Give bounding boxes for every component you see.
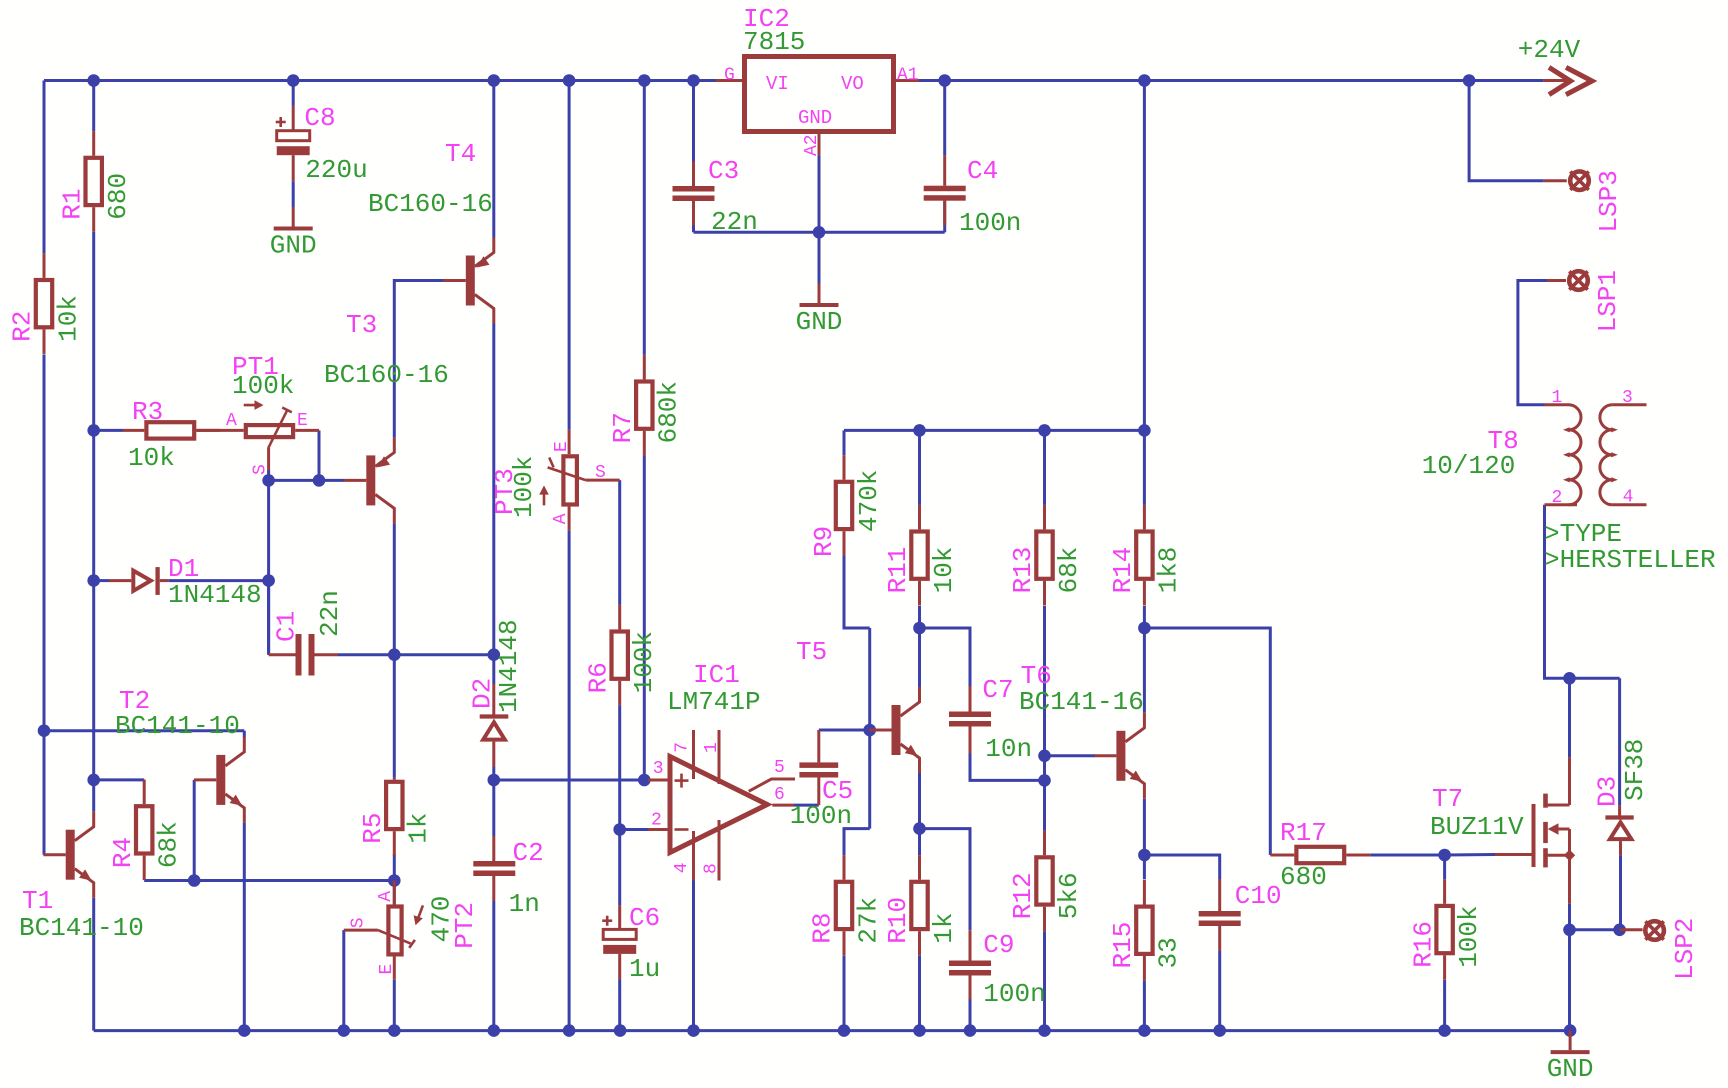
junction	[87, 74, 100, 87]
svg-text:C10: C10	[1235, 881, 1282, 911]
solder pad LSP1	[1547, 270, 1623, 332]
wire T1 emitter down	[92, 898, 95, 1031]
svg-text:R1: R1	[57, 188, 87, 219]
svg-text:100n: 100n	[790, 801, 852, 831]
wire T6-base col to R12	[1043, 756, 1046, 831]
resistor R7	[608, 355, 684, 456]
junction	[488, 648, 501, 661]
wire C1 row to T3 collector	[338, 653, 494, 656]
wire op-amp pin4 to GND rail	[692, 881, 695, 1031]
junction	[913, 1024, 926, 1037]
svg-text:2: 2	[1552, 488, 1563, 508]
svg-text:A: A	[376, 891, 396, 902]
junction	[1563, 924, 1576, 937]
junction	[964, 1024, 977, 1037]
wire R13 bottom to T6 base	[1043, 606, 1046, 756]
svg-text:100n: 100n	[959, 208, 1021, 238]
wire C3 top	[692, 81, 695, 162]
junction	[638, 774, 651, 787]
junction	[863, 724, 876, 737]
wire D2 anode to op-amp + row	[492, 767, 495, 780]
svg-text:C7: C7	[982, 675, 1013, 705]
svg-text:10k: 10k	[53, 295, 83, 342]
junction	[838, 1024, 851, 1037]
resistor R13	[1008, 505, 1084, 606]
svg-text:C1: C1	[272, 611, 302, 642]
potentiometer PT3	[490, 430, 620, 531]
resistor R12	[1008, 831, 1084, 932]
svg-text:100k: 100k	[629, 631, 659, 693]
wire C5 top to T5 base	[819, 729, 870, 732]
svg-text:R13: R13	[1008, 547, 1038, 594]
junction	[388, 874, 401, 887]
svg-text:E: E	[377, 964, 397, 975]
wire R5 top	[393, 655, 396, 778]
wire R1 bottom column	[92, 232, 95, 812]
svg-text:100k: 100k	[232, 371, 294, 401]
junction	[87, 774, 100, 787]
wire drain node down	[1568, 678, 1571, 757]
ground GND bottom	[1547, 1031, 1594, 1085]
wire C9 bottom to rail	[969, 1000, 972, 1031]
junction	[313, 474, 326, 487]
svg-text:S: S	[349, 917, 369, 928]
svg-text:7: 7	[673, 742, 693, 753]
capacitor C8	[276, 103, 368, 185]
wire T3 collector down	[393, 523, 396, 654]
wire bias bus row	[844, 429, 1144, 432]
wire T4 emitter to rail	[492, 81, 495, 238]
svg-text:3: 3	[1622, 388, 1633, 408]
wire D3 top	[1618, 678, 1621, 805]
wire C3-C4 GND row	[694, 231, 945, 234]
svg-text:BC160-16: BC160-16	[324, 360, 449, 390]
svg-text:T4: T4	[445, 139, 476, 169]
svg-text:A1: A1	[897, 66, 919, 86]
wire +24V left drop to R2	[43, 81, 46, 254]
wire C3 bottom	[692, 226, 695, 233]
svg-text:T3: T3	[346, 310, 377, 340]
svg-text:1k8: 1k8	[1154, 547, 1184, 594]
svg-text:BC160-16: BC160-16	[368, 189, 493, 219]
junction	[1438, 849, 1451, 862]
diode D2	[467, 619, 524, 767]
wire C2 column	[492, 780, 495, 836]
wire T2 base column	[193, 780, 196, 881]
supply +24V	[1518, 35, 1592, 95]
op-amp IC1	[648, 660, 795, 881]
svg-text:GND: GND	[798, 107, 832, 129]
wire R5 bottom to node	[393, 854, 396, 881]
svg-text:1N4148: 1N4148	[494, 619, 524, 713]
svg-text:PT2: PT2	[450, 902, 480, 949]
wire op-amp - input row	[620, 828, 648, 831]
resistor R17	[1270, 818, 1370, 892]
junction	[388, 648, 401, 661]
svg-text:E: E	[552, 441, 572, 452]
wire PT1-E drop	[318, 430, 321, 480]
wire C4 top	[943, 81, 946, 156]
junction	[338, 1024, 351, 1037]
diode D3	[1593, 739, 1650, 856]
MOSFET T7	[1430, 757, 1575, 904]
junction	[262, 474, 275, 487]
capacitor C1	[269, 590, 346, 675]
svg-text:BC141-10: BC141-10	[115, 711, 240, 741]
resistor R6	[583, 605, 659, 706]
resistor R11	[883, 505, 959, 606]
resistor R4	[108, 780, 184, 881]
svg-text:>HERSTELLER: >HERSTELLER	[1544, 545, 1716, 575]
svg-text:5: 5	[774, 758, 785, 778]
wire C8 to GND	[292, 181, 295, 207]
svg-text:4: 4	[1623, 488, 1634, 508]
svg-text:BC141-16: BC141-16	[1019, 687, 1144, 717]
svg-text:3: 3	[653, 759, 664, 779]
svg-text:IC1: IC1	[693, 660, 740, 690]
svg-text:VI: VI	[766, 73, 789, 95]
svg-text:T7: T7	[1432, 784, 1463, 814]
capacitor C6	[602, 903, 660, 984]
wire R10 bottom to rail	[918, 956, 921, 1031]
junction	[687, 1024, 700, 1037]
solder pad LSP2	[1620, 918, 1700, 980]
svg-text:C6: C6	[629, 903, 660, 933]
wire IC2 A1 to rail	[919, 79, 945, 82]
svg-text:R17: R17	[1280, 818, 1327, 848]
solder pad LSP3	[1544, 170, 1624, 232]
wire R11 top	[918, 430, 921, 505]
resistor R3	[123, 397, 220, 473]
svg-text:C8: C8	[304, 103, 335, 133]
junction	[613, 823, 626, 836]
junction	[1564, 1024, 1577, 1037]
wire C7 bottom row	[970, 754, 1045, 781]
svg-text:R6: R6	[583, 662, 613, 693]
wire R8 bottom to rail	[843, 956, 846, 1031]
junction	[1038, 750, 1051, 763]
svg-text:S: S	[250, 464, 270, 475]
svg-text:4: 4	[672, 862, 692, 873]
svg-text:1k: 1k	[404, 812, 434, 843]
svg-text:470k: 470k	[854, 470, 884, 532]
potentiometer PT1	[196, 352, 319, 475]
svg-text:A2: A2	[802, 134, 822, 156]
wire C10 bottom to rail	[1218, 951, 1221, 1031]
resistor R1	[57, 131, 133, 232]
svg-text:5k6: 5k6	[1054, 872, 1084, 919]
wire T8 pin2 down	[1545, 505, 1620, 679]
wire R4 row	[94, 778, 145, 781]
junction	[687, 74, 700, 87]
wire T7 gate	[1445, 853, 1495, 857]
junction	[38, 724, 51, 737]
svg-text:10k: 10k	[128, 443, 175, 473]
wire R1 top to rail	[92, 81, 95, 132]
capacitor C3	[673, 156, 758, 237]
junction	[1563, 672, 1576, 685]
svg-text:VO: VO	[841, 73, 864, 95]
transformer T8	[1422, 388, 1647, 508]
capacitor C7	[949, 675, 1032, 764]
wire R9 jog	[844, 556, 870, 629]
svg-text:2: 2	[651, 810, 662, 830]
junction	[1438, 1024, 1451, 1037]
svg-text:LSP1: LSP1	[1593, 270, 1623, 332]
wire R3 left	[94, 429, 123, 432]
junction	[188, 874, 201, 887]
ground GND at C8	[270, 207, 317, 261]
junction	[563, 1024, 576, 1037]
svg-text:R7: R7	[608, 412, 638, 443]
wire R14 bottom to T6 collector	[1143, 606, 1146, 713]
wire R16 top	[1443, 855, 1446, 879]
svg-text:68k: 68k	[154, 821, 184, 868]
wire T2 collector net	[44, 731, 244, 738]
wire D2 top	[492, 655, 495, 684]
resistor R5	[358, 778, 434, 856]
wire +24V top rail left segment	[44, 79, 716, 82]
resistor R10	[883, 855, 959, 956]
svg-text:1: 1	[1552, 388, 1563, 408]
resistor R9	[809, 455, 884, 557]
svg-text:100n: 100n	[983, 979, 1045, 1009]
capacitor C5	[790, 730, 854, 831]
svg-text:R16: R16	[1408, 921, 1438, 968]
svg-text:E: E	[297, 411, 308, 431]
wire PT2 A	[393, 881, 396, 905]
svg-text:R4: R4	[108, 837, 138, 868]
junction	[1138, 1024, 1151, 1037]
svg-text:C3: C3	[708, 156, 739, 186]
junction	[388, 1024, 401, 1037]
wire R14 top	[1143, 430, 1146, 505]
svg-text:BC141-10: BC141-10	[19, 913, 144, 943]
svg-text:680: 680	[1280, 862, 1327, 892]
wire R12 bottom to rail	[1043, 931, 1046, 1030]
wire GND bottom rail	[94, 1029, 1570, 1032]
svg-text:22n: 22n	[711, 207, 758, 237]
junction	[913, 822, 926, 835]
wire R9 top	[843, 430, 846, 455]
wire source to LSP2 row	[1570, 928, 1620, 931]
junction	[287, 74, 300, 87]
wire R8 jog	[844, 829, 870, 856]
wire C1 column	[267, 480, 270, 654]
junction	[913, 424, 926, 437]
wire R15 top	[1143, 855, 1146, 879]
transistor T2	[115, 686, 244, 823]
wire R7 bottom to + input	[643, 455, 646, 780]
transistor T4	[368, 139, 494, 324]
junction	[1038, 424, 1051, 437]
svg-text:A: A	[551, 513, 571, 524]
svg-text:1N4148: 1N4148	[168, 580, 262, 610]
svg-text:SF38: SF38	[1620, 739, 1650, 801]
wire +24V branch to LSP3	[1469, 81, 1544, 181]
wire T6 base row	[1045, 754, 1096, 757]
junction	[1613, 924, 1626, 937]
wire R15 bottom to rail	[1143, 981, 1146, 1031]
wire +24V to R14	[1143, 81, 1146, 431]
svg-text:22n: 22n	[315, 590, 345, 637]
wire PT2 S to rail	[342, 930, 345, 1031]
wire D3 bottom to LSP2 node	[1619, 855, 1622, 930]
svg-text:A: A	[226, 411, 237, 431]
wire C2 bottom to GND rail	[492, 901, 495, 1031]
svg-text:100k: 100k	[1454, 905, 1484, 967]
svg-text:S: S	[595, 463, 606, 483]
wire D1 right to C1 column	[168, 579, 268, 582]
wire R11 bottom to T5 collector	[918, 606, 921, 687]
wire T6-collector to R17	[1144, 628, 1270, 855]
potentiometer PT2	[344, 881, 480, 980]
svg-text:C9: C9	[983, 930, 1014, 960]
svg-text:680: 680	[103, 173, 133, 220]
wire PT3 E to rail	[568, 81, 571, 430]
svg-text:R9: R9	[809, 526, 839, 557]
transistor T6	[1019, 661, 1144, 799]
wire C1 left corner	[267, 581, 270, 655]
svg-text:R5: R5	[358, 812, 388, 843]
svg-text:R15: R15	[1108, 922, 1138, 969]
wire pin6 to C5	[794, 804, 819, 807]
svg-text:GND: GND	[1547, 1054, 1594, 1084]
svg-text:1n: 1n	[509, 889, 540, 919]
junction	[1138, 74, 1151, 87]
diode D1	[109, 554, 262, 610]
voltage regulator IC2	[716, 4, 919, 156]
junction	[238, 1024, 251, 1037]
svg-text:LSP2: LSP2	[1670, 918, 1700, 980]
svg-text:LM741P: LM741P	[667, 687, 761, 717]
junction	[813, 226, 826, 239]
svg-text:27k: 27k	[853, 897, 883, 944]
junction	[614, 1024, 627, 1037]
svg-text:LSP3: LSP3	[1594, 170, 1624, 232]
wire R17 to T7 gate node	[1370, 854, 1444, 857]
wire C6 column	[618, 830, 621, 906]
svg-text:220u: 220u	[305, 155, 367, 185]
junction	[87, 574, 100, 587]
svg-text:+24V: +24V	[1518, 35, 1581, 65]
svg-text:C4: C4	[967, 156, 998, 186]
capacitor C9	[949, 930, 1046, 1009]
svg-text:1k: 1k	[929, 912, 959, 943]
svg-text:33: 33	[1154, 937, 1184, 968]
wire C9 jog	[920, 829, 971, 931]
wire T4 collector to D2	[492, 324, 495, 655]
svg-text:BUZ11V: BUZ11V	[1430, 812, 1524, 842]
wire PT1-S to T3 base	[269, 479, 344, 482]
junction	[262, 574, 275, 587]
junction	[1038, 1024, 1051, 1037]
wire T6 emitter to R15 node	[1143, 799, 1146, 855]
wire +24V top rail right segment	[919, 79, 1544, 82]
resistor R2	[8, 253, 84, 354]
junction	[1138, 424, 1151, 437]
svg-text:10/120: 10/120	[1422, 451, 1516, 481]
svg-text:C2: C2	[513, 838, 544, 868]
svg-text:R2: R2	[8, 311, 38, 342]
svg-text:10n: 10n	[985, 734, 1032, 764]
capacitor C10	[1199, 879, 1282, 951]
resistor R16	[1408, 879, 1484, 980]
wire R16 bottom to rail	[1443, 980, 1446, 1031]
svg-text:R11: R11	[883, 547, 913, 594]
svg-text:680k: 680k	[654, 381, 684, 443]
wire C7 jog top	[920, 628, 971, 686]
junction	[1213, 1024, 1226, 1037]
svg-text:R3: R3	[132, 397, 163, 427]
wire R6 bottom to op-amp - row	[618, 705, 621, 829]
resistor R15	[1108, 880, 1184, 981]
wire T5 emitter down	[918, 773, 921, 829]
wire T7 source down	[1568, 904, 1571, 930]
svg-text:8: 8	[702, 863, 722, 874]
svg-text:T5: T5	[796, 637, 827, 667]
junction	[1463, 74, 1476, 87]
wire PT1 wiper down	[267, 470, 270, 480]
resistor R8	[808, 855, 884, 956]
svg-text:1u: 1u	[629, 954, 660, 984]
svg-text:10k: 10k	[929, 547, 959, 594]
junction	[1038, 774, 1051, 787]
wire PT3 A to GND rail	[568, 531, 571, 1031]
junction	[563, 74, 576, 87]
junction	[488, 774, 501, 787]
svg-text:7815: 7815	[743, 27, 805, 57]
attribute text HERSTELLER	[1544, 545, 1716, 575]
junction	[1138, 849, 1151, 862]
ground GND at IC2	[796, 284, 843, 338]
svg-text:GND: GND	[270, 231, 317, 261]
wire source node to GND rail	[1568, 930, 1571, 1031]
svg-text:6: 6	[774, 785, 785, 805]
svg-text:T1: T1	[22, 886, 53, 916]
svg-text:D2: D2	[467, 678, 497, 709]
junction	[638, 74, 651, 87]
junction	[488, 74, 501, 87]
wire PT2 E to rail	[393, 980, 396, 1031]
wire C4 bottom	[943, 201, 946, 233]
transistor T3	[324, 310, 449, 523]
svg-text:1: 1	[702, 742, 722, 753]
svg-text:100k: 100k	[509, 456, 539, 518]
wire R4 bottom row	[144, 879, 394, 882]
wire T3 emitter to T4 base	[394, 281, 444, 438]
junction	[1138, 622, 1151, 635]
svg-text:68k: 68k	[1054, 547, 1084, 594]
wire R2 bottom to T1 base	[43, 354, 46, 854]
wire R10 top	[918, 829, 921, 856]
wire D1 left	[94, 579, 109, 582]
junction	[87, 424, 100, 437]
svg-text:D3: D3	[1593, 776, 1623, 807]
svg-text:R14: R14	[1108, 547, 1138, 594]
junction	[488, 1024, 501, 1037]
resistor R14	[1108, 505, 1184, 606]
svg-text:G: G	[724, 66, 735, 86]
capacitor C4	[924, 155, 1022, 238]
wire R13 top	[1043, 430, 1046, 505]
transistor T1	[19, 812, 144, 943]
wire C6 bottom to rail	[618, 979, 621, 1031]
wire PT3 S to R6	[618, 480, 621, 605]
junction	[938, 74, 951, 87]
svg-text:GND: GND	[796, 307, 843, 337]
wire LSP1 to T8 pin1	[1518, 281, 1547, 405]
